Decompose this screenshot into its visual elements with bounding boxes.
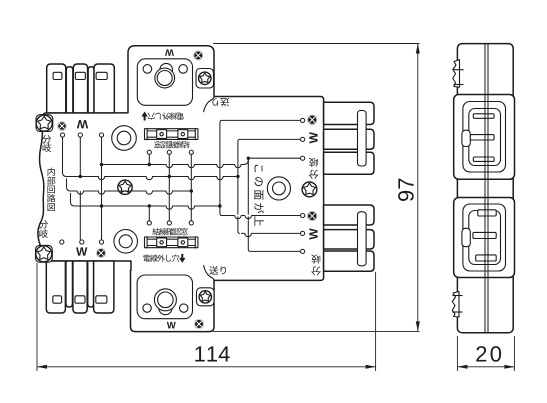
side view top clip: [453, 60, 460, 87]
side view module 2 outer: [454, 198, 515, 278]
top box keyhole outer: [155, 68, 175, 88]
bus line 2: [67, 177, 238, 180]
W mark top box: [165, 49, 174, 56]
mounting hole top-left inner: [117, 131, 131, 145]
bottom box keyhole outer: [154, 289, 176, 311]
arrow up top: [141, 112, 147, 121]
W mark right-top: [309, 132, 317, 143]
top-left plug tabs: [47, 64, 115, 113]
bus line 3: [71, 191, 192, 194]
side module2 mid frame: [463, 204, 506, 271]
label wire release hole top (rot): [147, 113, 183, 120]
side module2 slot 2: [473, 232, 496, 238]
dim 97 extension lines: [213, 43, 420, 45]
label bunki right-top (rot): [309, 158, 319, 179]
mounting hole right inner: [273, 182, 286, 195]
(rotated copy): [212, 98, 229, 107]
right tabs slot bar 2: [358, 212, 367, 266]
top box left hole: [143, 65, 152, 74]
side module2 inner frame: [469, 211, 501, 265]
label okuri top (rot): [212, 98, 229, 107]
screw housing top-left: [36, 115, 53, 132]
label bunki bottom-left: [39, 220, 48, 238]
(rotated copy): [147, 113, 183, 120]
label okuri bottom: [209, 266, 226, 275]
label internal circuit diagram: [47, 168, 55, 211]
W mark right-bottom: [309, 228, 317, 239]
label this side up: [254, 165, 264, 226]
slot screw top-left: [57, 121, 66, 130]
torx screw bottom-left: [36, 246, 52, 262]
wire center col1 bottom: [148, 206, 150, 221]
top box keyhole small: [160, 63, 173, 76]
dim 97 line: [417, 44, 419, 332]
dim text 20: [476, 346, 501, 362]
dim text 97: [398, 179, 414, 201]
wire center col1 top: [148, 154, 150, 164]
wire jumps on feed line 1: [235, 215, 252, 219]
wire left col2 top: [79, 137, 81, 176]
bottom-left plug tabs: [46, 261, 114, 313]
W mark bottom-left: [76, 247, 87, 255]
side view center parting lines: [484, 44, 486, 333]
side module2 slot 1: [478, 210, 496, 216]
screw housing bottom box right: [197, 288, 215, 306]
top box inner frame: [137, 59, 192, 106]
feed label ledge top: [204, 97, 215, 113]
confirmation window bottom: [145, 236, 198, 248]
side view bottom clip: [452, 292, 459, 318]
mounting hole bottom-left inner: [119, 235, 132, 248]
wire left col1: [63, 137, 67, 176]
bottom-left tab slots: [53, 296, 107, 303]
right tabs slot bar 1: [358, 111, 367, 167]
torx screw top box: [199, 72, 211, 84]
wire left col3: [101, 137, 103, 240]
staircase steps left: [67, 179, 75, 207]
W mark top-left: [77, 120, 88, 128]
top box keyhole inner: [157, 71, 172, 86]
label wire release hole bottom: [143, 254, 179, 261]
dim 20 extension lines: [456, 336, 458, 371]
side module2 slot 3: [476, 255, 497, 261]
side module1 mid frame: [463, 102, 506, 173]
junction dots: [79, 157, 250, 208]
dim 114 extension lines: [37, 44, 514, 372]
right side plug tabs group1: [324, 102, 374, 174]
screw housing bottom-left: [36, 245, 53, 262]
side module1 latch bump: [462, 130, 470, 146]
W mark bottom box: [167, 322, 176, 329]
wire feed pair 1: [220, 120, 301, 215]
slot screw right-top: [307, 115, 317, 125]
side module1 inner frame: [469, 109, 501, 166]
slot screw top box: [193, 51, 203, 61]
feed label ledge bottom: [204, 265, 215, 280]
side module1 slot 2: [470, 135, 494, 140]
mounting hole right outer: [267, 177, 290, 200]
top box right hole: [179, 65, 188, 74]
dim arrows: [37, 44, 514, 369]
label wiring check window bottom: [152, 228, 187, 235]
screw housing top box right: [196, 69, 214, 89]
slot screw right-bottom: [307, 211, 317, 221]
bottom box right hole: [180, 304, 188, 312]
dim 20 line: [457, 366, 514, 368]
wire center col2: [168, 154, 170, 220]
top-left tab slots: [53, 72, 107, 79]
torx screw center-right: [302, 182, 317, 197]
mounting hole bottom-left outer: [114, 230, 138, 254]
bottom box inner frame: [137, 275, 192, 319]
side module2 latch bump: [462, 228, 470, 246]
slot screw bottom-left: [96, 248, 106, 258]
confirmation window top: [145, 128, 198, 140]
torx screw bottom box: [199, 291, 211, 303]
circuit terminals: [60, 118, 305, 253]
arrow down bottom: [179, 254, 185, 263]
torx screw center-left: [118, 180, 132, 194]
(rotated copy): [154, 141, 189, 148]
wire feed pair 2: [238, 139, 301, 233]
bottom box keyhole small: [159, 302, 172, 315]
dim 114 line: [37, 366, 376, 368]
label wiring check window top (rot): [154, 141, 189, 148]
side view body: [457, 44, 513, 333]
torx screw top-left: [36, 115, 52, 131]
bus line 4: [75, 206, 220, 209]
bus line 1: [102, 165, 244, 168]
main body outline: [38, 46, 324, 332]
dim text 114: [195, 346, 229, 361]
side module1 slot 1: [473, 114, 494, 119]
mounting hole top-left outer: [112, 126, 137, 151]
wire left col2 bottom: [79, 191, 81, 240]
right side plug tabs group2: [324, 205, 374, 271]
label bunki top-left: [42, 135, 51, 152]
wire feed pair 3: [248, 158, 300, 251]
slot screw bottom box: [194, 319, 204, 329]
side view module 1 outer: [454, 95, 515, 180]
wire center col3: [190, 154, 192, 220]
side module1 slot 3: [473, 157, 494, 161]
label bunki right-bottom (rot): [311, 255, 321, 276]
bottom box keyhole inner: [158, 292, 174, 308]
bottom box left hole: [143, 304, 151, 312]
